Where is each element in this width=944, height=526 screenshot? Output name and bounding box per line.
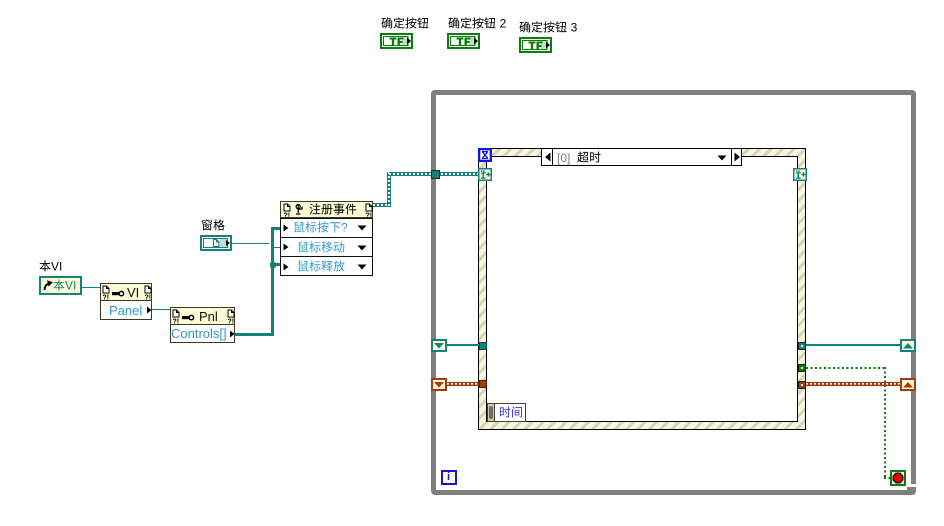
register node title 注册事件: [309, 203, 359, 219]
event data node 时间: [487, 403, 495, 422]
register node flag icon: [295, 204, 303, 215]
label 确定按钮: [381, 17, 431, 33]
event row 鼠标移动 text: [297, 241, 347, 257]
svg-text:?: ?: [341, 221, 348, 235]
property node VI: [100, 283, 152, 320]
Pnl node key icon: [182, 314, 195, 321]
Pnl node ref corner out: [227, 309, 235, 325]
property node Pnl: [170, 307, 235, 343]
register-for-events node 注册事件: [280, 201, 373, 218]
event row 鼠标按下? input arrow: [283, 224, 289, 232]
wire error right: [806, 382, 900, 386]
Pnl node class text: [199, 309, 218, 324]
wire event reg left: [447, 344, 479, 346]
tunnel event reg in: [479, 342, 487, 350]
event row 鼠标按下? dropdown: [357, 225, 367, 231]
VI node class text: [127, 285, 139, 300]
dynamic event terminal left: [478, 168, 492, 181]
svg-text:?!: ?!: [145, 295, 152, 302]
event structure border: [478, 148, 806, 430]
text 时间: [499, 406, 525, 422]
loop tunnel (event reg wire): [431, 170, 440, 179]
label 窗格: [201, 219, 227, 235]
event row 鼠标释放 text: [297, 260, 347, 276]
svg-text:?!: ?!: [173, 319, 180, 326]
wire error left: [447, 382, 479, 386]
wire Controls[] vertical: [271, 227, 274, 336]
wire boolean to stop terminal: [884, 477, 891, 479]
event row 鼠标释放 input arrow: [283, 263, 289, 271]
label 确定按钮 2: [448, 17, 508, 33]
wire branch to 鼠标按下? row: [271, 227, 281, 230]
svg-text:VI: VI: [65, 279, 76, 293]
svg-text:VI: VI: [51, 260, 62, 274]
event row 鼠标移动 input arrow: [283, 243, 289, 251]
Pnl property Controls[]: [171, 326, 227, 341]
wire 窗格 to register node: [232, 243, 269, 244]
svg-text:?!: ?!: [284, 213, 291, 220]
event reg wire segment from node: [373, 203, 391, 207]
wire boolean horizontal: [806, 367, 884, 369]
VI node ref corner in: [102, 285, 110, 301]
svg-text:?!: ?!: [228, 319, 235, 326]
svg-text:3: 3: [571, 21, 578, 35]
event row 鼠标移动 dropdown: [357, 245, 367, 251]
wire branch to 鼠标释放 row: [274, 263, 281, 266]
register node ref corner left: [283, 203, 291, 219]
svg-text:2: 2: [500, 17, 507, 31]
VI property Panel: [109, 303, 142, 318]
svg-text:?!: ?!: [103, 295, 110, 302]
loop border notch: [911, 484, 916, 488]
loop condition (stop) terminal: [890, 470, 906, 486]
wire boolean vertical: [884, 367, 886, 477]
boolean terminal 确定按钮 3 (TF): [519, 37, 552, 53]
tunnel error in: [479, 380, 487, 388]
wire Panel to Pnl property node: [152, 309, 170, 310]
wire event reg right: [806, 344, 900, 346]
shift register left (error): [431, 378, 447, 391]
pane reference 窗格: [200, 235, 232, 251]
tunnel boolean out: [798, 364, 806, 372]
dynamic event terminal right: [793, 168, 807, 181]
selector dropdown arrow: [717, 155, 727, 161]
event row 鼠标释放 dropdown: [357, 264, 367, 270]
wire stub to 鼠标移动 row: [273, 247, 281, 248]
svg-text:?!: ?!: [366, 213, 373, 220]
label 确定按钮 3: [519, 21, 579, 37]
event selector label [0] 超时: [541, 148, 742, 166]
shift register left (event reg): [431, 339, 447, 352]
wire junction dot: [270, 262, 276, 268]
while loop border: [431, 90, 916, 495]
text 本VI (teal): [53, 279, 78, 295]
tunnel error out: [798, 381, 806, 389]
event reg wire top segment: [389, 172, 478, 176]
boolean terminal 确定按钮 2 (TF): [447, 33, 480, 49]
iteration terminal i: [441, 470, 457, 485]
selector text [0]: [557, 151, 570, 165]
event row 鼠标按下? text: [293, 221, 350, 237]
shift register right (error): [900, 378, 916, 391]
Pnl node ref corner in: [172, 309, 180, 325]
timeout terminal (hourglass): [478, 148, 492, 162]
VI node key icon: [112, 290, 125, 297]
wire 本VI to VI property node: [82, 287, 100, 288]
boolean terminal 确定按钮 (TF): [380, 33, 413, 49]
VI Panel out arrow: [146, 306, 152, 314]
this-VI reference node 本VI: [39, 276, 82, 295]
shift register right (event reg): [900, 339, 916, 352]
selector text 超时: [577, 151, 603, 167]
VI node ref corner out: [144, 285, 152, 301]
register node ref corner right: [365, 203, 373, 219]
Pnl Controls[] out arrow: [229, 330, 235, 338]
wire Controls[] horizontal: [235, 333, 274, 336]
label 本VI: [39, 260, 64, 276]
tunnel event reg out: [798, 342, 806, 350]
event reg wire vertical segment: [387, 172, 391, 207]
